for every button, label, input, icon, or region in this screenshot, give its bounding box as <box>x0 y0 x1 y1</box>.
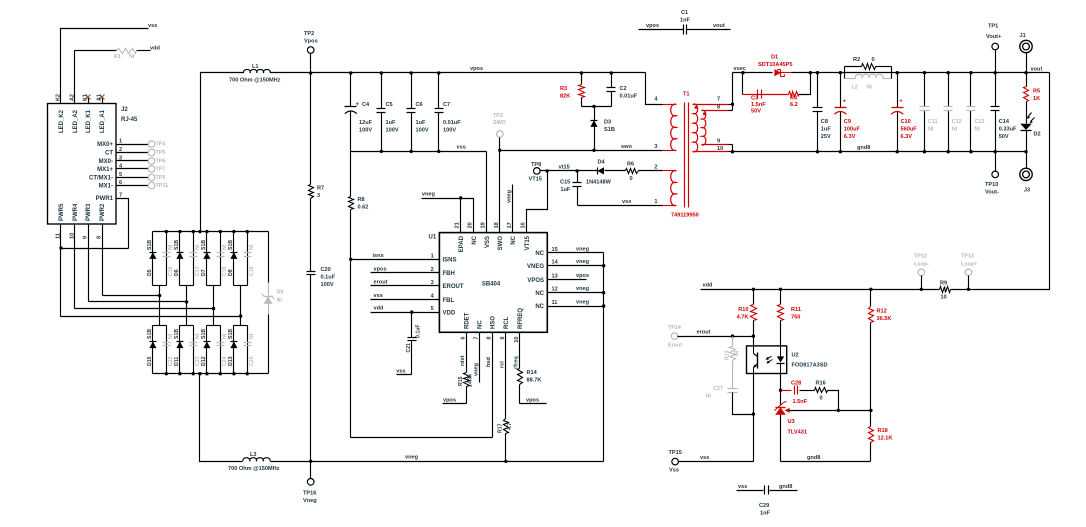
pin number 3 <box>431 280 434 286</box>
svg-text:C25: C25 <box>249 356 255 366</box>
resistor R16 <box>815 388 828 393</box>
diode D8 <box>230 252 237 259</box>
label TP6 <box>156 159 166 165</box>
svg-text:vss: vss <box>700 455 709 461</box>
label C9 <box>844 119 851 125</box>
pin number 7 <box>119 193 122 199</box>
label D9 <box>277 290 284 296</box>
pin K2 designator <box>56 94 62 101</box>
svg-text:RCL: RCL <box>504 316 510 329</box>
wire J2 pin 5 CT/MX1- <box>117 177 149 179</box>
wire C23 column <box>193 326 195 374</box>
svg-text:D8: D8 <box>228 269 234 276</box>
wire C1 left <box>639 29 684 31</box>
test point TP4 <box>148 141 155 148</box>
label C8 voltage <box>821 134 831 140</box>
junction vpos C6 <box>410 71 413 74</box>
junction vss C6 <box>410 150 413 153</box>
svg-text:R13: R13 <box>725 350 731 360</box>
svg-text:100V: 100V <box>359 128 372 134</box>
svg-text:D11: D11 <box>174 357 180 366</box>
wire R11 top <box>780 290 782 305</box>
wire C18 column <box>220 232 222 286</box>
label R9 <box>940 281 947 287</box>
svg-text:NC: NC <box>472 235 478 244</box>
svg-text:14: 14 <box>552 260 559 266</box>
junction TP13 <box>967 288 970 291</box>
svg-text:D7: D7 <box>201 269 207 276</box>
svg-text:NI: NI <box>928 127 934 133</box>
label TP10 Vout- <box>985 190 999 196</box>
label TP1 <box>988 24 998 30</box>
junction vout C12 <box>947 71 950 74</box>
label R10 value <box>737 315 749 321</box>
svg-text:T1: T1 <box>683 92 690 98</box>
wire J3 stub <box>1026 152 1028 169</box>
svg-text:RDET: RDET <box>465 312 471 329</box>
wire R7 to C20 <box>310 199 312 272</box>
svg-text:C27: C27 <box>713 386 723 392</box>
svg-text:TP2: TP2 <box>304 31 314 37</box>
capacitor C23 (NI) <box>190 343 198 346</box>
svg-text:vpos: vpos <box>646 23 659 29</box>
svg-text:6.3V: 6.3V <box>844 134 856 140</box>
label D7 S1B <box>201 240 207 250</box>
svg-text:50V: 50V <box>751 109 761 115</box>
svg-text:R8: R8 <box>358 197 365 203</box>
node vneg (EPAD) <box>422 192 436 198</box>
svg-text:D2: D2 <box>1034 132 1041 138</box>
svg-text:7: 7 <box>119 193 122 199</box>
svg-text:K1: K1 <box>83 94 89 101</box>
label TP3 SWO <box>493 120 506 126</box>
svg-text:+: + <box>356 102 360 108</box>
svg-text:NI: NI <box>249 333 255 339</box>
wire TP2 stub <box>310 54 312 73</box>
wire R2L2 left post <box>844 67 846 79</box>
wire C17 column <box>193 232 195 286</box>
pin name ISNS <box>443 258 457 264</box>
capacitor C21 <box>408 338 417 341</box>
node vt15 <box>559 164 570 170</box>
junction top bus D6 <box>178 230 181 233</box>
junction vpos C5 <box>380 71 383 74</box>
svg-text:NC: NC <box>535 251 544 257</box>
svg-text:9: 9 <box>83 236 89 239</box>
junction bottom bus D12 <box>205 372 208 375</box>
node vneg (pin14) <box>576 259 590 265</box>
junction bridge input 2 <box>185 300 188 303</box>
label D11 <box>174 357 180 366</box>
svg-text:FBH: FBH <box>443 271 455 277</box>
label C14 value <box>999 127 1017 133</box>
pin A2 designator <box>70 94 76 101</box>
node vneg (pin7) <box>473 362 479 376</box>
junction top bus C16 <box>165 230 168 233</box>
svg-text:12.1K: 12.1K <box>878 436 893 442</box>
resistor R3 <box>579 85 585 98</box>
svg-text:PWR4: PWR4 <box>73 203 79 221</box>
wire C10 column <box>897 73 899 152</box>
wire PWR4 <box>74 225 76 309</box>
pin number 7 (T1) <box>717 97 720 103</box>
svg-text:gnd8: gnd8 <box>807 455 820 461</box>
svg-text:1N4148W: 1N4148W <box>586 180 612 186</box>
svg-text:U1: U1 <box>429 235 437 241</box>
svg-text:R12: R12 <box>877 309 887 315</box>
wire D3 top <box>594 107 596 121</box>
svg-text:10: 10 <box>941 295 947 301</box>
svg-text:rdet: rdet <box>460 355 466 366</box>
wire top cell 1 bottom <box>153 285 167 287</box>
label C21 <box>406 343 412 353</box>
svg-text:TP10: TP10 <box>985 182 998 188</box>
svg-text:TP3: TP3 <box>493 113 503 119</box>
node gnd8 (C29) <box>779 484 792 490</box>
pin name CT <box>105 151 113 157</box>
svg-text:VT15: VT15 <box>529 177 542 183</box>
junction pin11 vneg <box>602 304 605 307</box>
label C4 <box>362 102 370 108</box>
wire VSS pin19 <box>486 152 488 233</box>
svg-text:749119950: 749119950 <box>671 213 699 219</box>
label D1 <box>771 55 778 61</box>
junction ref R16 <box>837 409 840 412</box>
svg-text:100V: 100V <box>321 282 334 288</box>
label TP2 <box>304 31 314 37</box>
svg-text:C16: C16 <box>168 266 174 276</box>
junction vout C8 <box>816 71 819 74</box>
capacitor C24 (NI) <box>217 343 225 346</box>
svg-text:R11: R11 <box>791 307 801 313</box>
wire pin4 FBL stub <box>371 299 440 301</box>
label C6 voltage <box>416 128 429 134</box>
label TP15 Vss <box>669 468 679 474</box>
wire D8 column <box>233 232 235 286</box>
pin name SWO (top) <box>498 236 504 251</box>
wire emitter to vss <box>753 374 755 462</box>
pin name EROUT <box>443 284 464 290</box>
resistor R15 <box>464 373 470 387</box>
test point TP12 <box>918 269 925 276</box>
pin name LED_K1 <box>86 109 92 133</box>
wire R8 top <box>350 152 352 197</box>
inductor L2 (NI) <box>845 74 892 78</box>
label C8 value <box>821 127 832 133</box>
pin number 8 (bottom) <box>486 337 492 340</box>
wire top cell 3 bottom <box>207 285 221 287</box>
capacitor C28 (red) <box>795 386 798 395</box>
label L2 <box>852 85 858 91</box>
junction vout C9 <box>839 71 842 74</box>
wire top cell 2 bottom <box>180 285 194 287</box>
svg-text:1K: 1K <box>1033 96 1040 102</box>
svg-text:PWR5: PWR5 <box>59 203 65 221</box>
node rcl <box>500 361 506 368</box>
wire C15 to T1 pin1 <box>578 205 677 207</box>
svg-text:A2: A2 <box>70 94 76 101</box>
test point TP11 <box>148 182 155 189</box>
junction pin10 <box>731 150 734 153</box>
wire C12 column <box>948 73 950 152</box>
pin number 4 <box>431 294 435 300</box>
label C4 voltage <box>359 128 372 134</box>
label R18 value <box>878 436 893 442</box>
capacitor C11 (NI) <box>920 107 930 111</box>
pin number 8 <box>97 236 103 239</box>
wire R14 to vpos <box>519 385 521 404</box>
label R12 value <box>877 316 892 322</box>
label C16 <box>168 266 174 276</box>
wire pin15 stub <box>548 252 604 254</box>
connector J1 <box>1020 40 1032 52</box>
pin name FBL <box>443 298 455 304</box>
svg-text:vpos: vpos <box>576 273 589 279</box>
capacitor C8 <box>813 108 823 112</box>
diode D6 <box>176 252 183 259</box>
svg-text:vdd: vdd <box>150 46 161 52</box>
resistor R2 <box>862 64 876 70</box>
svg-text:C4: C4 <box>362 102 370 108</box>
svg-text:0.01uF: 0.01uF <box>443 120 461 126</box>
pin number 9 <box>83 236 89 239</box>
label R9 value <box>941 295 947 301</box>
label C7 voltage <box>443 128 456 134</box>
label T1 <box>683 92 690 98</box>
junction gnd C13 <box>969 150 972 153</box>
label R3 value <box>560 94 570 100</box>
resistor R18 (red) <box>869 427 874 443</box>
no-connect LED_A1 <box>100 95 105 105</box>
junction bottom bus to L3 <box>198 372 201 375</box>
pin number 4 (T1) <box>654 97 658 103</box>
svg-text:8: 8 <box>717 105 720 111</box>
svg-text:rfreq: rfreq <box>514 356 520 369</box>
svg-text:S1B: S1B <box>147 329 153 339</box>
wire D10 column <box>152 326 154 374</box>
svg-text:MX1+: MX1+ <box>97 167 113 173</box>
wire bridge input 1 <box>103 295 160 297</box>
svg-text:C29: C29 <box>759 503 769 509</box>
junction VDD C21 <box>410 310 413 313</box>
test point TP14 <box>671 333 678 340</box>
label C14 voltage <box>999 134 1009 140</box>
test point TP10 <box>992 171 999 178</box>
node hsd (pin8) <box>486 356 492 367</box>
svg-text:TP8: TP8 <box>531 162 541 168</box>
pin name RCL (bottom) <box>504 316 510 329</box>
svg-text:FBL: FBL <box>443 298 455 304</box>
junction bottom bus C22 <box>165 372 168 375</box>
label J2 <box>121 107 128 113</box>
inductor L1 <box>243 69 270 73</box>
svg-text:VNEG: VNEG <box>527 264 544 270</box>
label TP10 <box>985 182 998 188</box>
diode D1 (red) <box>774 69 784 76</box>
svg-text:R17: R17 <box>498 423 504 433</box>
wire bridge to L3 <box>200 374 243 462</box>
wire PWR2 <box>102 225 104 296</box>
junction pin7 <box>731 103 734 106</box>
svg-text:6.3V: 6.3V <box>901 134 913 140</box>
svg-text:NI: NI <box>195 244 201 250</box>
resistor R13 (NI) <box>730 347 736 361</box>
wire erout line <box>678 336 754 338</box>
svg-text:L2: L2 <box>852 85 858 91</box>
svg-text:TP1: TP1 <box>988 24 998 30</box>
label R15 <box>458 376 464 386</box>
label U2 part <box>792 363 828 369</box>
svg-text:36.5K: 36.5K <box>877 316 892 322</box>
svg-text:C20: C20 <box>321 267 331 273</box>
svg-text:25V: 25V <box>821 134 831 140</box>
svg-text:R2: R2 <box>853 57 860 63</box>
phase dot inner <box>703 112 706 115</box>
svg-text:S1B: S1B <box>201 240 207 250</box>
resistor R9 <box>940 287 951 293</box>
svg-text:erout: erout <box>697 330 711 336</box>
svg-text:6: 6 <box>119 180 122 186</box>
svg-text:82K: 82K <box>560 94 570 100</box>
svg-text:CT: CT <box>105 151 113 157</box>
label L3 value <box>228 466 280 472</box>
svg-text:vneg: vneg <box>507 189 513 203</box>
label C20 value <box>321 275 336 281</box>
wire pin12 stub <box>548 292 604 294</box>
wire vpos to T1 pin4 <box>646 73 663 105</box>
svg-text:1nF: 1nF <box>760 511 771 517</box>
junction erout R13 <box>731 334 734 337</box>
label TP8 <box>531 162 541 168</box>
svg-text:4.7K: 4.7K <box>737 315 749 321</box>
svg-text:vss: vss <box>148 23 157 29</box>
label C29 value <box>760 511 771 517</box>
label C5 <box>386 102 393 108</box>
junction bottom bus D13 <box>232 372 235 375</box>
wire R11 to U2 <box>780 321 782 346</box>
svg-text:A1: A1 <box>97 94 103 101</box>
wire C21 bottom <box>411 341 413 375</box>
wire D6 column <box>179 232 181 286</box>
wire bridge mid column 3 <box>213 286 215 326</box>
wire vss stub from LED_K2 <box>61 29 149 105</box>
resistor R1 <box>117 49 137 54</box>
label C19 <box>249 266 255 276</box>
node vpos (FBH) <box>374 266 387 272</box>
power vpos (R15) <box>443 398 467 404</box>
node vneg (pin12) <box>576 286 590 292</box>
node vss (FBL) <box>374 293 383 299</box>
junction vdd R10 <box>752 288 755 291</box>
label C13 <box>975 119 985 125</box>
svg-text:U3: U3 <box>788 419 795 425</box>
label R5 value <box>1033 96 1040 102</box>
wire J2 pin 3 MX0- <box>117 160 149 162</box>
junction vss C7 <box>437 150 440 153</box>
svg-text:erout: erout <box>374 279 388 285</box>
wire C2 bottom <box>611 92 613 107</box>
svg-text:R14: R14 <box>527 370 538 376</box>
test point TP8 <box>534 168 541 175</box>
svg-text:TP15: TP15 <box>669 450 682 456</box>
pin number 8 (T1) <box>717 105 720 111</box>
wire C2 top <box>611 73 613 88</box>
svg-text:D9: D9 <box>277 290 284 296</box>
svg-text:NI: NI <box>168 244 174 250</box>
svg-text:vdd: vdd <box>703 283 714 289</box>
junction top bus C19 <box>246 230 249 233</box>
svg-text:VPOS: VPOS <box>527 278 544 284</box>
junction vpos C4 <box>349 71 352 74</box>
label U3 <box>788 419 795 425</box>
svg-text:S1B: S1B <box>147 240 153 250</box>
svg-text:1.5nF: 1.5nF <box>793 399 808 405</box>
label D4 <box>598 159 606 165</box>
pin name NC (top) <box>472 235 478 244</box>
svg-text:C12: C12 <box>952 119 962 125</box>
svg-text:4.7: 4.7 <box>507 423 513 430</box>
svg-text:J3: J3 <box>1024 188 1030 194</box>
svg-text:Erout: Erout <box>668 343 682 349</box>
resistor R4 (red) <box>789 92 799 97</box>
junction gnd C11 <box>923 150 926 153</box>
node vdd (VDD) <box>374 306 385 312</box>
svg-text:SWO: SWO <box>493 120 506 126</box>
label TP13 <box>961 254 974 260</box>
pin name PWR2 <box>100 203 106 221</box>
pin number 9 (bottom) <box>500 337 506 340</box>
svg-text:C22: C22 <box>168 356 174 366</box>
label R4 value <box>790 102 798 108</box>
svg-text:vneg: vneg <box>576 246 590 252</box>
transformer T1 secondary inner coil <box>702 110 706 145</box>
wire sense loop bottom <box>351 437 493 439</box>
label U3 part <box>788 430 807 436</box>
wire C5 column <box>381 73 383 152</box>
label J1 <box>1020 33 1026 39</box>
svg-text:PWR2: PWR2 <box>100 203 106 221</box>
label R11 value <box>791 315 800 321</box>
wire pin17 stub <box>512 185 514 233</box>
svg-text:1: 1 <box>119 139 122 145</box>
svg-text:vdd: vdd <box>374 306 385 312</box>
label C6 value <box>416 120 427 126</box>
svg-text:100V: 100V <box>386 128 399 134</box>
wire vdd stub from LED_A2 <box>75 51 151 105</box>
svg-text:3: 3 <box>119 156 122 162</box>
wire R6 to T1 pin2 <box>639 170 677 172</box>
svg-text:SWO: SWO <box>498 236 504 251</box>
node vsec <box>734 66 746 72</box>
label C6 <box>416 102 423 108</box>
svg-text:9: 9 <box>500 337 506 340</box>
label C11 NI <box>928 127 934 133</box>
junction TP12 <box>920 288 923 291</box>
resistor R7 <box>309 185 314 199</box>
junction vout C14 <box>994 71 997 74</box>
label TP16 <box>303 491 316 497</box>
svg-text:C8: C8 <box>821 119 828 125</box>
svg-text:0: 0 <box>630 176 633 182</box>
pin name NC (right) <box>535 304 544 310</box>
wire secondary pins joined bottom <box>732 145 734 152</box>
svg-text:vpos: vpos <box>526 398 539 404</box>
node erout (EROUT) <box>374 279 388 285</box>
pin number 3 (T1) <box>654 144 657 150</box>
junction erout R10 <box>752 334 755 337</box>
svg-text:1uF: 1uF <box>560 187 571 193</box>
wire bridge to L1 <box>201 73 244 232</box>
